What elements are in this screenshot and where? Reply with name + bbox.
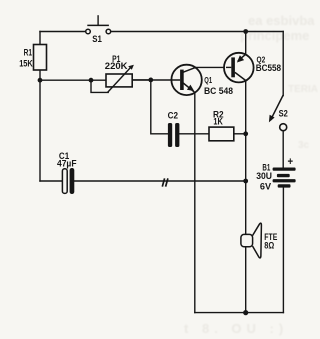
wire C2 to R2 [179,133,209,135]
svg-text:3c: 3c [298,140,310,151]
svg-text:TERIA: TERIA [288,84,318,95]
switch S2 [269,95,287,131]
wire node B drop to C2 row [151,80,168,134]
svg-text:47µF: 47µF [57,158,77,168]
svg-text:220K: 220K [105,61,128,71]
junction dot R2/right column [243,131,248,136]
wire Q1 collector to Q2 base [196,66,231,68]
resistor R2 [209,127,234,141]
svg-text:6V: 6V [260,182,271,192]
crossover mark on C1 rail [162,178,168,186]
svg-text:S1: S1 [92,34,102,44]
svg-text:Q1: Q1 [204,75,212,85]
capacitor C2 [168,123,180,147]
svg-text:principeme: principeme [240,28,309,43]
svg-text:BC 548: BC 548 [204,86,233,96]
top rail junction dot [243,29,248,34]
wire right column (Q2 collector down to speaker and bottom rail) [245,81,247,313]
svg-text:15K: 15K [19,58,33,68]
wire P1 wiper loop [91,80,108,92]
wire bottom rail [195,312,284,314]
battery B1 [273,168,296,188]
wire top rail left segment [40,31,86,33]
wire Q2 emitter up to top rail [245,32,247,55]
junction dot C1 rail / right column [243,179,248,184]
wire C1 rail [40,180,246,182]
svg-text:BC558: BC558 [256,63,281,73]
page ghost artifacts [184,13,318,336]
transistor Q2 BC558 [224,53,254,83]
svg-text:ea esbivba: ea esbivba [248,13,315,28]
wire S2 column / battery column [282,32,284,313]
node P1-left junction dot [89,78,94,83]
capacitor C1 (electrolytic) [62,168,74,194]
node B junction dot [148,78,153,83]
transistor Q1 BC548 [132,65,202,95]
pushbutton S1 [86,15,111,34]
wire P1 right to node B [132,79,151,81]
potentiometer P1 [106,65,134,93]
speaker FTE [241,223,262,258]
wire left column (R1 to C1 corner) [39,70,41,181]
wire left column top (rail to R1) [39,32,41,45]
wire Q1 emitter column down to bottom rail [194,92,196,312]
svg-text:8Ω: 8Ω [264,241,274,251]
svg-text:S2: S2 [279,109,288,119]
node A junction dot [38,78,43,83]
svg-text:R1: R1 [24,47,32,57]
svg-text:1K: 1K [213,116,223,126]
wire top rail right segment [111,31,284,33]
junction dot bottom rail [243,310,248,315]
resistor R1 [34,45,47,71]
svg-text:30U: 30U [256,171,272,181]
svg-text:t 8. OU :): t 8. OU :) [184,321,288,336]
svg-text:C2: C2 [168,110,178,120]
wire R2 to right column [234,133,246,135]
wire node A horizontal (R1 to P1) [40,79,106,81]
svg-text:+: + [288,156,294,168]
